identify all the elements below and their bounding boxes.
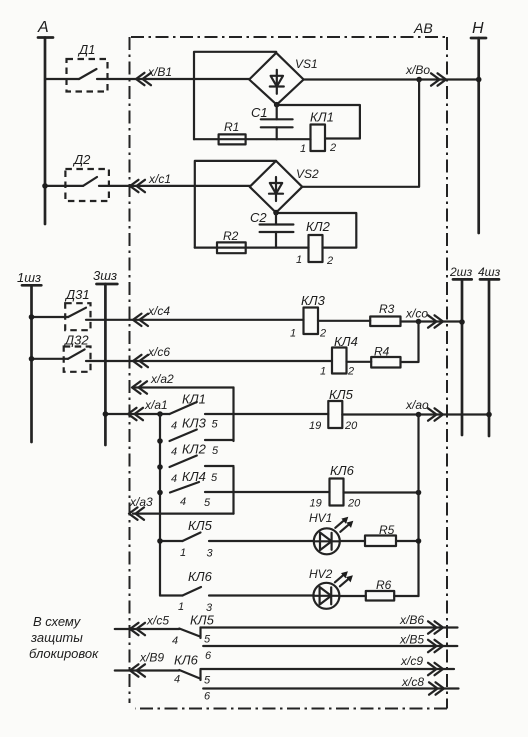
- svg-text:x/а2: x/а2: [150, 372, 174, 386]
- svg-text:x/В5: x/В5: [399, 633, 424, 647]
- svg-text:блокировок: блокировок: [29, 646, 99, 661]
- svg-text:С2: С2: [250, 210, 267, 225]
- svg-text:x/ао: x/ао: [405, 398, 429, 412]
- wire R5 to trunk: [396, 538, 421, 544]
- resistor R2: [217, 229, 246, 253]
- svg-text:VS1: VS1: [295, 57, 318, 71]
- wire VS1 dc plus to KL1 pin2: [274, 102, 360, 139]
- svg-text:КЛ6: КЛ6: [174, 653, 199, 668]
- svg-text:19: 19: [310, 498, 322, 510]
- svg-text:КЛ2: КЛ2: [306, 219, 331, 234]
- wire x/co output: [401, 307, 465, 328]
- wire VS2 top loop: [195, 161, 276, 248]
- VS2 diode: [269, 177, 283, 201]
- svg-text:2шз: 2шз: [449, 265, 473, 279]
- note text to protection circuit: [29, 614, 99, 661]
- relay coil KL5 (19-20): [309, 387, 358, 432]
- svg-text:КЛ4: КЛ4: [334, 334, 358, 349]
- resistor R4: [371, 345, 400, 368]
- svg-text:R3: R3: [379, 302, 395, 316]
- capacitor C2: [250, 210, 293, 248]
- wire x/B9 input: [115, 651, 180, 677]
- svg-text:В схему: В схему: [33, 614, 82, 629]
- svg-text:x/с1: x/с1: [148, 172, 171, 186]
- wire x/B1: [97, 65, 249, 85]
- contact KL3 (4-5): [157, 416, 233, 459]
- svg-text:x/с9: x/с9: [400, 654, 423, 668]
- svg-text:1шз: 1шз: [17, 270, 41, 285]
- svg-text:КЛ1: КЛ1: [310, 110, 334, 125]
- svg-text:КЛ3: КЛ3: [182, 416, 207, 431]
- svg-text:КЛ6: КЛ6: [188, 569, 213, 584]
- svg-text:1: 1: [300, 143, 306, 155]
- wire x/B5 output: [203, 633, 457, 653]
- svg-text:x/В6: x/В6: [399, 613, 424, 627]
- resistor R6: [366, 578, 394, 601]
- contact KL6 (1-3): [160, 569, 314, 614]
- node 3sh3 bus: [93, 268, 117, 445]
- svg-text:HV1: HV1: [309, 511, 332, 525]
- node H bus: [471, 20, 486, 233]
- svg-text:1: 1: [290, 328, 296, 340]
- wire x/c9 output: [201, 654, 455, 675]
- svg-text:5: 5: [204, 497, 211, 509]
- svg-text:VS2: VS2: [296, 167, 319, 181]
- node 1sh3 bus: [17, 270, 41, 442]
- resistor R1: [219, 120, 246, 144]
- wire ladder right link upper: [232, 388, 234, 442]
- relay coil KL2: [296, 219, 333, 267]
- VS1 diode: [270, 70, 284, 94]
- svg-text:2: 2: [319, 328, 326, 340]
- svg-text:x/а3: x/а3: [129, 495, 153, 509]
- wire HV2 to R6: [340, 595, 366, 597]
- wire x/a1 from 3sh3: [103, 398, 170, 420]
- svg-text:АВ: АВ: [413, 20, 433, 36]
- svg-text:R5: R5: [379, 523, 395, 537]
- svg-text:Д32: Д32: [63, 333, 89, 348]
- resistor R5: [365, 523, 396, 546]
- contact KL4 (4-5): [157, 469, 329, 509]
- svg-text:19: 19: [309, 420, 321, 432]
- wire x/c4: [86, 304, 304, 326]
- contact D32: [29, 333, 91, 372]
- boundary AB dash-dot frame: [130, 20, 448, 709]
- svg-text:5: 5: [212, 445, 219, 457]
- wire R4 up to x/co: [401, 322, 419, 363]
- svg-text:А: А: [37, 19, 49, 36]
- svg-text:2: 2: [329, 142, 336, 154]
- wire VS1 top loop: [194, 52, 276, 139]
- svg-text:Д2: Д2: [72, 152, 91, 167]
- wire x/c1: [99, 172, 250, 192]
- wire VS2 bottom branch: [195, 247, 309, 249]
- svg-text:Д31: Д31: [64, 287, 90, 302]
- wire ladder right link lower: [232, 467, 234, 514]
- svg-text:x/В1: x/В1: [147, 65, 172, 79]
- LED HV1: [309, 511, 353, 554]
- contact KL2 (4-5): [157, 442, 233, 486]
- svg-text:КЛ3: КЛ3: [301, 293, 326, 308]
- svg-text:2: 2: [326, 255, 333, 267]
- wire x/ao output: [342, 398, 492, 421]
- wire x/a3: [129, 495, 234, 520]
- svg-text:С1: С1: [251, 105, 268, 120]
- svg-text:x/В9: x/В9: [139, 651, 164, 665]
- svg-text:HV2: HV2: [309, 567, 333, 581]
- wire x/c8 output: [203, 675, 458, 695]
- relay coil KL3: [290, 293, 326, 340]
- svg-text:4: 4: [171, 420, 177, 432]
- svg-text:x/с8: x/с8: [401, 675, 424, 689]
- wire x/c6: [86, 345, 332, 367]
- svg-text:x/Во: x/Во: [405, 63, 430, 77]
- rectifier VS2: [250, 161, 319, 213]
- svg-text:5: 5: [212, 419, 219, 431]
- contact KL5 (1-3): [157, 518, 314, 560]
- svg-text:R2: R2: [223, 229, 239, 243]
- svg-text:x/с4: x/с4: [147, 304, 170, 318]
- wire x/a2: [132, 372, 234, 394]
- svg-text:КЛ5: КЛ5: [190, 613, 215, 628]
- svg-text:x/с5: x/с5: [146, 614, 169, 628]
- svg-text:защиты: защиты: [30, 630, 83, 645]
- wire x/c5 input: [115, 614, 180, 636]
- svg-text:4: 4: [174, 674, 180, 686]
- svg-text:КЛ5: КЛ5: [188, 518, 213, 533]
- contact KL6 (4-5-6) changeover: [174, 653, 211, 703]
- svg-text:x/с6: x/с6: [147, 345, 170, 359]
- svg-text:R1: R1: [224, 120, 239, 134]
- wire HV1 to R5: [340, 540, 365, 542]
- capacitor C1: [251, 105, 293, 140]
- wire VS1 bottom branch: [194, 138, 311, 140]
- svg-text:4: 4: [171, 446, 177, 458]
- svg-text:20: 20: [347, 498, 361, 510]
- svg-text:Д1: Д1: [77, 42, 95, 57]
- node 4sh3 bus: [478, 265, 501, 436]
- wire return trunk: [417, 415, 419, 597]
- svg-text:1: 1: [296, 254, 302, 266]
- contact KL1 (4-5): [170, 392, 329, 433]
- svg-text:x/а1: x/а1: [144, 398, 168, 412]
- svg-text:R6: R6: [376, 578, 392, 592]
- svg-text:КЛ4: КЛ4: [182, 469, 206, 484]
- contact D1: [45, 42, 108, 92]
- wire x/Bo output: [304, 63, 482, 86]
- relay coil KL1: [300, 110, 336, 156]
- svg-text:4шз: 4шз: [478, 265, 501, 279]
- resistor R3: [370, 302, 400, 326]
- wire KL6 to trunk: [344, 490, 422, 496]
- wire R6 to trunk: [394, 595, 418, 597]
- relay coil KL6 (19-20): [310, 463, 362, 510]
- contact KL5 (4-5-6) changeover: [172, 613, 215, 663]
- svg-text:Н: Н: [472, 20, 484, 37]
- relay coil KL4: [320, 334, 358, 378]
- svg-text:КЛ1: КЛ1: [182, 392, 206, 407]
- svg-text:1: 1: [180, 547, 186, 559]
- wire VS2 output: [302, 80, 419, 187]
- svg-text:5: 5: [204, 634, 211, 646]
- svg-text:4: 4: [171, 473, 177, 485]
- svg-text:6: 6: [204, 691, 211, 703]
- svg-text:4: 4: [180, 496, 186, 508]
- wire x/B6 output: [201, 613, 458, 634]
- svg-text:3шз: 3шз: [93, 268, 117, 283]
- contact D2: [42, 152, 109, 201]
- contact D31: [29, 287, 91, 330]
- svg-text:КЛ2: КЛ2: [182, 442, 207, 457]
- svg-text:5: 5: [211, 472, 218, 484]
- svg-text:4: 4: [172, 635, 178, 647]
- svg-text:1: 1: [178, 601, 184, 613]
- svg-text:R4: R4: [374, 345, 390, 359]
- node 2sh3 bus: [449, 265, 473, 435]
- svg-text:x/со: x/со: [405, 307, 428, 321]
- svg-text:2: 2: [347, 366, 354, 378]
- wire KL3 to R3: [318, 320, 370, 322]
- wire ladder left bus: [159, 414, 161, 596]
- node A bus: [37, 19, 53, 224]
- svg-text:5: 5: [204, 675, 211, 687]
- wire VS2 dc plus to KL2 pin2: [273, 210, 356, 248]
- LED HV2: [309, 567, 353, 609]
- rectifier VS1: [249, 53, 317, 105]
- svg-text:6: 6: [205, 650, 212, 662]
- svg-text:1: 1: [320, 366, 326, 378]
- wire KL4 to R4 to x/co node: [347, 361, 372, 363]
- svg-text:20: 20: [344, 420, 358, 432]
- svg-text:3: 3: [207, 548, 214, 560]
- svg-text:КЛ5: КЛ5: [329, 387, 354, 402]
- svg-text:КЛ6: КЛ6: [330, 463, 355, 478]
